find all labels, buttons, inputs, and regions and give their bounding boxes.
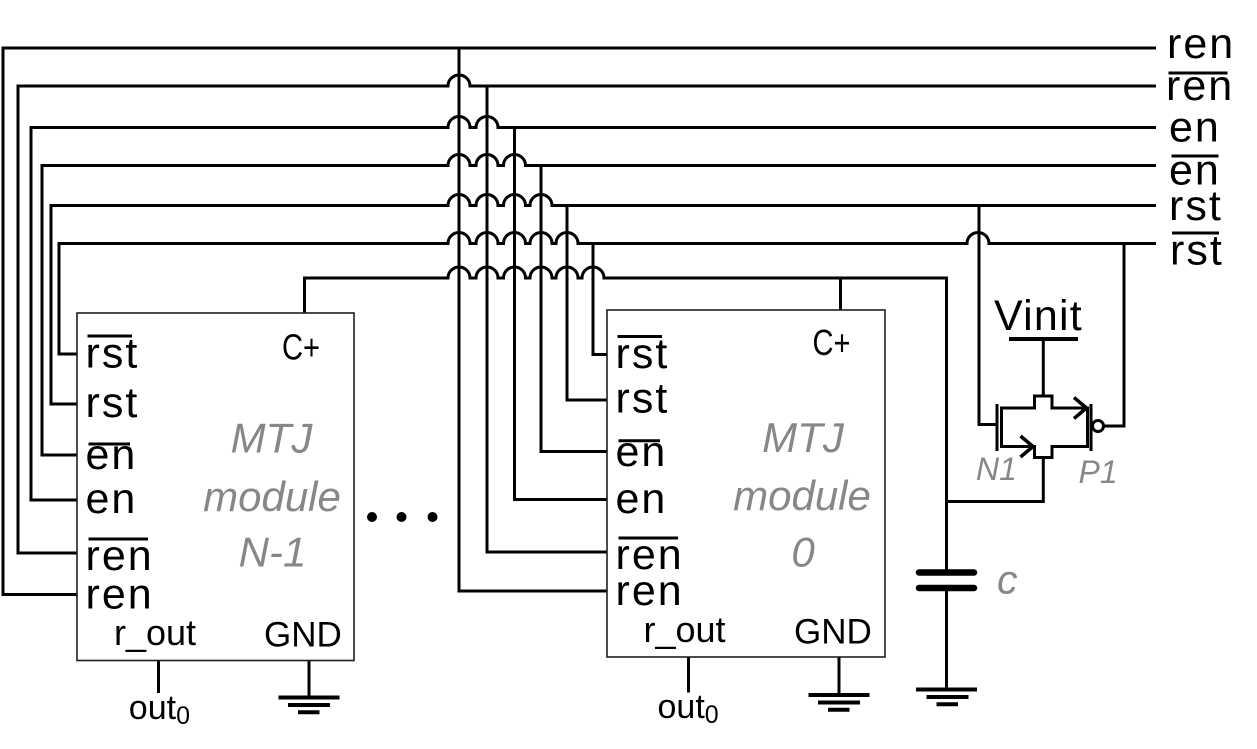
module N-1 pin label en-bar [86,431,138,479]
wire rst-bar bus (hops over 5 verticals and over rst drop at x=979) [59,233,1156,355]
net label rst-bar [1170,226,1224,274]
arrow on bottom edge (N1 direction) [1021,436,1034,457]
svg-text:MTJ: MTJ [762,414,845,461]
svg-text:out0: out0 [129,689,190,730]
module 0 pin label en-bar [616,428,668,476]
svg-text:out0: out0 [658,688,719,729]
svg-text:module: module [733,472,871,519]
wire C+ net (from module N-1 C+ pin, hops over 6 verticals, down to capacitor node) [305,267,947,570]
svg-text:en: en [86,431,138,479]
wire ren vertical drop to module 0 ren pin [459,48,607,591]
wire ren bus (net ren: top line, left drop to module N-1 ren pin) [3,48,1156,595]
transistor P1 gate bubble [1093,421,1104,432]
wire en bus (hops over 2 verticals) [31,117,1156,501]
module N-1 title MTJ module N-1 [203,414,341,575]
arrow on top edge (P1 direction) [1074,398,1087,419]
svg-text:0: 0 [791,529,815,576]
module U_0 MTJ module 0 box [607,310,885,657]
power Vinit supply bar [1009,337,1078,341]
svg-text:en: en [86,475,138,523]
wire module N-1 GND pin [308,661,311,698]
wire en-bar vertical drop to module 0 en-bar pin [541,166,607,452]
wire rst drop to N1 gate [979,206,996,425]
svg-text:r_out: r_out [114,612,196,653]
dots ellipsis between modules [367,512,438,522]
svg-text:en: en [616,475,668,523]
svg-text:rst: rst [86,379,140,427]
svg-text:rst: rst [616,375,670,423]
svg-text:r_out: r_out [644,609,726,650]
transmission gate body (N1/P1 pair) [1002,396,1088,458]
svg-text:ren: ren [616,567,684,615]
transistor P1 gate bar [1090,404,1093,451]
wire module 0 r_out pin [687,657,690,693]
ground (module N-1 GND) [279,698,340,713]
svg-text:module: module [203,473,341,520]
svg-text:C+: C+ [813,322,851,363]
module U_N-1 MTJ module N-1 box [77,313,354,661]
svg-text:ren: ren [1167,20,1235,68]
wire capacitor bottom to ground [945,588,948,689]
svg-text:P1: P1 [1079,454,1118,490]
svg-text:MTJ: MTJ [231,414,314,461]
wire module N-1 r_out pin [157,661,160,694]
module N-1 pin label ren-bar [86,532,154,580]
wire en-bar bus (hops over 3 verticals) [42,155,1156,456]
ground (capacitor) [916,690,977,705]
svg-text:GND: GND [264,616,342,655]
svg-text:c: c [997,557,1018,603]
wire rst bus (hops over 4 verticals) [51,195,1156,405]
ground (module 0 GND) [809,695,870,710]
wire ren-bar vertical drop to module 0 ren-bar pin [487,86,607,552]
svg-text:Vinit: Vinit [994,292,1083,340]
wire en vertical drop to module 0 en pin [515,128,608,500]
svg-text:en: en [616,428,668,476]
svg-text:rst: rst [1169,182,1223,230]
wire module 0 GND pin [838,657,841,695]
net label ren-bar [1166,62,1234,110]
wire transmission gate output to capacitor node [947,458,1044,502]
wire rst-bar vertical drop to module 0 rst-bar pin [593,244,607,355]
net label en-bar [1169,147,1221,195]
module 0 pin label rst-bar [616,330,670,378]
svg-text:C+: C+ [282,327,320,368]
wire Vinit to transmission gate top [1042,339,1045,396]
svg-text:N-1: N-1 [239,529,307,576]
svg-text:en: en [1169,104,1221,152]
svg-text:GND: GND [794,613,872,652]
wire rst vertical drop to module 0 rst pin [567,206,607,401]
module 0 pin label ren-bar [616,531,684,579]
module N-1 pin label rst-bar [86,330,140,378]
module 0 title MTJ module 0 [733,414,871,576]
wire module 0 C+ pin [839,278,842,310]
wire ren-bar bus (hop over 1 vertical, left drop to module N-1 ren-bar pin) [18,75,1156,553]
svg-text:N1: N1 [976,451,1017,487]
capacitor C1 plates [919,573,974,589]
wire rst-bar drop to P1 gate bubble [1105,244,1125,427]
transistor N1 gate bar [996,404,999,451]
